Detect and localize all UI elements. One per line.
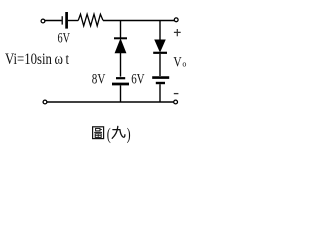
battery B1 6V series source: thin short plate <box>61 16 63 24</box>
battery B1 6V series source: thick tall plate <box>65 12 68 29</box>
wire right branch upper <box>159 21 161 41</box>
terminal: bottom-right minus <box>174 100 178 104</box>
terminal: top-left input <box>41 19 45 23</box>
wire <box>120 85 122 102</box>
diode D1 triangle (points up) <box>115 40 125 53</box>
wire middle branch upper <box>120 21 122 38</box>
wire <box>45 20 62 22</box>
svg-text:o: o <box>182 60 186 69</box>
plus sign at output <box>174 29 181 36</box>
caption: CJK glyph TU (figure) drawn as paths <box>93 127 104 139</box>
battery 6V: short bottom plate <box>156 82 165 84</box>
wire bottom rail <box>47 101 174 103</box>
svg-text:8V: 8V <box>92 71 106 87</box>
terminal: bottom-left <box>43 100 47 104</box>
terminal: top-right output plus <box>174 18 178 22</box>
wire <box>159 84 161 102</box>
battery 8V: long bottom plate <box>112 83 129 86</box>
wire <box>120 53 122 77</box>
wire <box>103 20 174 22</box>
svg-text:6V: 6V <box>58 31 71 47</box>
svg-text:): ) <box>127 124 131 143</box>
minus sign at output <box>174 93 179 95</box>
diode D2 cathode bar <box>153 52 167 54</box>
diode D1 cathode bar <box>114 37 127 39</box>
resistor R <box>78 14 103 26</box>
svg-text:V: V <box>173 54 182 70</box>
svg-text:6V: 6V <box>131 71 145 87</box>
svg-text:(: ( <box>107 124 111 143</box>
caption: CJK glyph JIU (nine) drawn as paths <box>112 126 125 138</box>
svg-text:Vi=10sin ω t: Vi=10sin ω t <box>5 51 70 68</box>
wire <box>68 20 78 22</box>
battery 6V: long top plate <box>152 76 169 79</box>
diode D2 triangle (points down) <box>155 40 165 51</box>
battery 8V: short top plate <box>116 77 125 79</box>
wire <box>159 54 161 76</box>
